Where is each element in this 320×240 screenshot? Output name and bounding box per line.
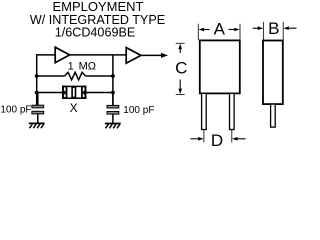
dimension B arrows: [253, 26, 297, 30]
wire: output with arrow: [141, 54, 162, 56]
crystal X1 plate (center capsule): [71, 86, 76, 99]
svg-text:1: 1: [68, 61, 74, 73]
resistor R1 zigzag: [65, 72, 86, 80]
node: junction right crystal: [111, 91, 115, 95]
wire: crystal row right: [77, 92, 113, 94]
dimension A arrows: [199, 28, 240, 32]
dimension D arrows: [191, 137, 246, 141]
wire: right cap bottom lead: [112, 114, 114, 123]
pin 1 (left leg): [202, 93, 207, 129]
wire: left cap bottom lead: [37, 114, 39, 123]
crystal X1 case outline: [63, 86, 86, 98]
capacitor C2 top plate: [107, 105, 119, 108]
capacitor C1 top plate: [32, 105, 44, 108]
package body (front view): [200, 40, 240, 93]
pin 2 (right leg): [230, 93, 235, 129]
crystal X1 plate inner slit: [73, 88, 75, 97]
svg-text:1/6CD4069BE: 1/6CD4069BE: [55, 25, 136, 39]
ground right: [105, 124, 121, 129]
dimension D extension lines: [204, 130, 232, 143]
svg-text:MΩ: MΩ: [79, 61, 96, 73]
wire: U1 output to U2 input: [70, 54, 127, 56]
op-amp U2 (inverter triangle): [126, 48, 141, 64]
arrowhead output: [161, 53, 168, 58]
wire: input stub to inverter U1: [37, 54, 56, 56]
dimension C ticks: [176, 43, 185, 94]
crystal X1 left electrode: [63, 87, 67, 99]
package body (side view): [263, 41, 283, 105]
wire: right cap top lead: [112, 93, 114, 106]
dimension B extension lines: [263, 22, 283, 41]
wire: right vertical rail: [112, 55, 114, 106]
svg-text:A: A: [214, 19, 226, 38]
capacitor C1 bottom plate: [32, 111, 44, 114]
svg-text:100 pF: 100 pF: [123, 105, 154, 116]
wire: through left notch: [60, 92, 65, 94]
wire: left cap top lead: [37, 93, 39, 106]
op-amp U1 (inverter triangle): [55, 47, 69, 63]
dimension A extension lines: [198, 24, 240, 41]
wire: resistor row right: [86, 75, 113, 77]
dimension C arrows: [178, 44, 182, 95]
svg-text:C: C: [175, 58, 187, 77]
node: junction left resistor: [35, 74, 39, 78]
ground left: [29, 123, 45, 128]
pin (side view leg): [271, 104, 276, 127]
svg-text:B: B: [268, 19, 279, 38]
wire: resistor row left: [37, 75, 65, 77]
node: junction right resistor: [111, 74, 115, 78]
svg-text:X: X: [70, 101, 78, 115]
crystal X1 right electrode: [82, 87, 86, 99]
svg-text:D: D: [211, 131, 223, 148]
capacitor C2 bottom plate: [107, 112, 119, 115]
svg-text:100 pF: 100 pF: [0, 104, 31, 115]
node: junction left crystal: [35, 91, 39, 95]
wire: crystal row left: [37, 92, 72, 94]
wire: through right notch: [84, 92, 89, 94]
wire: left vertical rail: [36, 54, 38, 105]
